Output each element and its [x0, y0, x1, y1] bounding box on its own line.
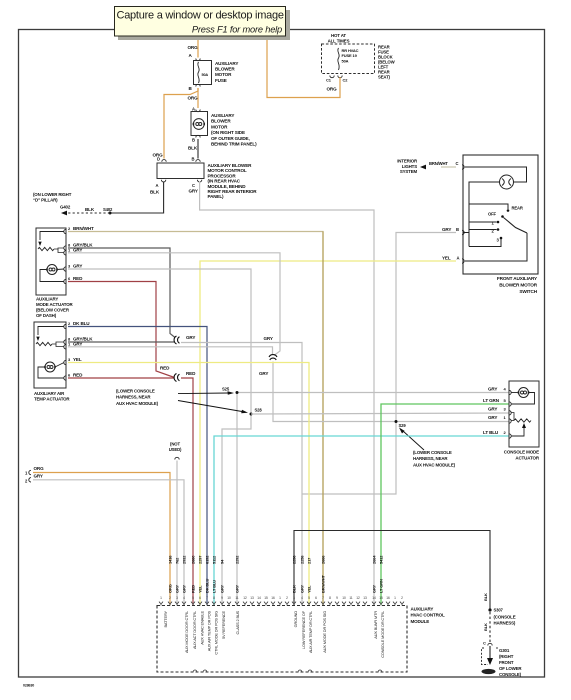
svg-text:5: 5 — [308, 596, 310, 600]
contact REAR — [507, 209, 510, 212]
actuator AUXILIARY AIR TEMP ACTUATOR box — [34, 322, 66, 388]
pin 3 terminal temp actuator — [64, 360, 66, 364]
svg-text:6192: 6192 — [205, 555, 210, 564]
svg-text:50A: 50A — [202, 73, 209, 77]
motor symbol temp actuator — [45, 362, 55, 372]
motor to pin 5 console actuator — [511, 393, 535, 405]
svg-text:2297: 2297 — [198, 555, 203, 564]
svg-text:“D” PILLAR): “D” PILLAR) — [33, 197, 58, 202]
svg-text:1: 1 — [279, 596, 281, 600]
svg-text:G301: G301 — [499, 648, 510, 653]
wire LT BLU module to console actuator pin 2 — [214, 436, 509, 605]
motor to pin 6 temp actuator — [38, 367, 64, 378]
contact 3 — [500, 237, 503, 240]
svg-text:A: A — [457, 256, 460, 261]
connector inline C200 GRY/BLK pair — [174, 336, 179, 344]
svg-text:2: 2 — [286, 596, 288, 600]
svg-text:(RIGHT: (RIGHT — [499, 654, 514, 659]
svg-text:CLASS 2 BUS: CLASS 2 BUS — [235, 610, 240, 634]
label AUXILIARY AIR TEMP ACTUATOR — [34, 391, 70, 402]
wire DK BLU temp actuator pin 2 to module — [68, 327, 207, 606]
fuse element curve — [198, 62, 199, 83]
svg-text:13: 13 — [250, 596, 254, 600]
svg-text:5V REFERENCE: 5V REFERENCE — [221, 610, 226, 639]
pin 3 terminal mode actuator — [64, 267, 66, 271]
pin 6 terminal mode actuator — [64, 279, 66, 283]
svg-text:11: 11 — [235, 596, 239, 600]
pin 3 to resistor console actuator — [511, 413, 514, 421]
wire GRY switch B to splice S29 and module low reference — [302, 233, 456, 495]
wire YEL temp actuator pin 3 to module — [68, 363, 309, 606]
svg-text:13: 13 — [363, 596, 367, 600]
motor symbol console mode actuator — [519, 388, 529, 398]
svg-text:GRY: GRY — [73, 264, 82, 269]
connector inline GRY pair vertical — [269, 355, 277, 360]
motor symbol aux blower motor — [193, 119, 204, 130]
svg-text:LT GRN: LT GRN — [379, 579, 384, 593]
svg-text:BLOWER MOTOR: BLOWER MOTOR — [499, 282, 537, 287]
wire BLK motor B to processor pin B — [197, 139, 199, 159]
svg-text:10: 10 — [342, 596, 346, 600]
wire GRY not used to module — [176, 461, 178, 606]
contact OFF — [501, 215, 504, 218]
fuse RR HVAC FUSE 19 element — [338, 48, 339, 70]
svg-text:2256: 2256 — [292, 555, 297, 564]
svg-text:Capture a window or desktop im: Capture a window or desktop image — [117, 10, 284, 22]
svg-text:OFF: OFF — [488, 212, 497, 217]
svg-text:GRY: GRY — [488, 407, 497, 412]
wiper arrow mode actuator — [38, 242, 41, 246]
wire GRY mode actuator pin 3 through splice S28 to module — [68, 269, 251, 605]
splice S402 — [109, 212, 112, 215]
svg-text:FUSE: FUSE — [215, 78, 227, 83]
resistor to pin 8 — [54, 248, 64, 249]
pin 1 to resistor console actuator — [511, 420, 514, 422]
svg-text:OF OUTER GUIDE,: OF OUTER GUIDE, — [211, 136, 250, 141]
svg-text:3: 3 — [176, 596, 178, 600]
wire RED from connector to module — [181, 378, 193, 605]
svg-text:REAR: REAR — [512, 206, 523, 211]
svg-text:BATTERY: BATTERY — [163, 610, 168, 627]
pin 1 terminal temp actuator — [64, 345, 66, 349]
svg-text:HARNESS, NEAR: HARNESS, NEAR — [116, 395, 151, 400]
svg-text:B: B — [456, 227, 459, 232]
arrow from harness label to splice S25 — [178, 392, 228, 395]
svg-text:GRY: GRY — [259, 371, 268, 376]
pin 1 terminal mode actuator — [64, 251, 66, 255]
svg-text:DK BLU: DK BLU — [73, 321, 90, 326]
svg-text:4: 4 — [183, 596, 185, 600]
svg-text:LT BLU: LT BLU — [483, 430, 499, 435]
svg-text:USED): USED) — [169, 447, 182, 452]
svg-text:LT BLU: LT BLU — [212, 580, 217, 593]
svg-text:S402: S402 — [103, 207, 113, 212]
resistor to pin 1 — [58, 249, 64, 253]
terminal C2 of rear fuse block — [338, 76, 342, 78]
svg-text:GRY: GRY — [220, 584, 225, 593]
splice S307 — [488, 608, 491, 611]
svg-text:AUXILIARY: AUXILIARY — [36, 297, 58, 302]
svg-text:CONSOLE): CONSOLE) — [499, 672, 522, 677]
wire ORG from hot feed down to fuse F1 pin A — [197, 36, 199, 58]
svg-text:SEAT): SEAT) — [378, 75, 391, 80]
wire BRN/WHT down to aux hvac module mode door pos — [322, 232, 324, 606]
svg-text:2932: 2932 — [182, 555, 187, 564]
svg-text:GROUND: GROUND — [293, 611, 298, 628]
motor to pin 3 mode actuator — [57, 268, 64, 271]
tooltip Capture a window or desktop image — [115, 7, 286, 37]
wire GRY from connector through splice S29 to console actuator pin 1 — [273, 362, 509, 422]
svg-text:FRONT AUXILIARY: FRONT AUXILIARY — [497, 276, 538, 281]
svg-text:AUX AIR TEMP DR POS: AUX AIR TEMP DR POS — [207, 610, 212, 651]
label AUXILIARY BLOWER MOTOR FUSE — [215, 61, 238, 83]
wire GRY temp actuator pin 1 to inline connector — [68, 347, 273, 354]
svg-text:AUXILIARY: AUXILIARY — [215, 61, 238, 66]
wire ORG front harness to module battery pin — [33, 473, 170, 606]
wire bulb to switch common — [469, 182, 500, 204]
resistor to pin 1 temp actuator — [56, 344, 64, 347]
pin 2 terminal front harness — [29, 478, 31, 482]
svg-text:MODULE: MODULE — [411, 619, 430, 624]
wire switch C to illumination bulb — [465, 167, 527, 182]
label G301 RIGHT FRONT OF LOWER CONSOLE — [499, 648, 522, 677]
svg-text:D: D — [157, 157, 160, 162]
pin 2 terminal temp actuator — [64, 324, 66, 328]
svg-text:MOTOR: MOTOR — [211, 124, 228, 129]
svg-text:12: 12 — [243, 596, 247, 600]
svg-text:GRY: GRY — [372, 584, 377, 593]
svg-text:DK BLU: DK BLU — [205, 579, 210, 593]
svg-text:INTERIOR: INTERIOR — [397, 159, 418, 164]
pin C terminal switch — [462, 165, 464, 169]
actuator AUXILIARY MODE ACTUATOR box — [36, 228, 66, 295]
svg-text:GRY: GRY — [189, 189, 198, 194]
pin B terminal of motor — [196, 135, 200, 137]
label LOWER CONSOLE HARNESS NEAR AUX HVAC MODULE right — [413, 450, 456, 467]
svg-text:G402: G402 — [60, 205, 71, 210]
svg-text:1: 1 — [394, 596, 396, 600]
pin D terminal processor — [162, 160, 166, 162]
fuse AUXILIARY BLOWER MOTOR FUSE 50A — [194, 61, 212, 85]
wire GRY splice S28 to console actuator pin 3 — [251, 413, 509, 414]
wire GRY front harness to module — [33, 480, 184, 605]
svg-text:14: 14 — [372, 596, 376, 600]
svg-text:762: 762 — [175, 557, 180, 564]
svg-text:1: 1 — [160, 596, 162, 600]
svg-text:SYSTEM: SYSTEM — [400, 169, 418, 174]
motor symbol mode actuator — [47, 265, 57, 275]
svg-text:12: 12 — [356, 596, 360, 600]
svg-text:(BELOW COVER: (BELOW COVER — [36, 308, 70, 313]
wire LT GRN console actuator pin 5 to module — [381, 404, 509, 605]
svg-text:ORG: ORG — [188, 45, 199, 50]
svg-text:BRN/WHT: BRN/WHT — [73, 226, 94, 231]
svg-text:14: 14 — [257, 596, 261, 600]
resistor potentiometer temp actuator — [36, 342, 52, 345]
svg-text:GRY: GRY — [186, 335, 195, 340]
pin 1 terminal front harness — [29, 470, 31, 474]
wire to contact 2 — [469, 229, 497, 231]
svg-text:ORG: ORG — [34, 466, 45, 471]
motor M1 AUXILIARY BLOWER MOTOR — [191, 112, 208, 136]
label INTERIOR LIGHTS SYSTEM — [397, 159, 418, 175]
label FRONT AUXILIARY BLOWER MOTOR SWITCH — [497, 276, 538, 294]
pin A terminal switch — [462, 259, 464, 263]
svg-text:FRONT: FRONT — [499, 660, 514, 665]
svg-text:YEL: YEL — [307, 585, 312, 593]
svg-text:(LOWER CONSOLE: (LOWER CONSOLE — [413, 450, 452, 455]
wire to contact 1 — [469, 221, 497, 223]
svg-text:MOTOR: MOTOR — [215, 72, 232, 77]
svg-text:BLK: BLK — [150, 190, 160, 195]
module AUXILIARY HVAC CONTROL MODULE dashed box — [157, 606, 407, 673]
wire RED mode actuator pin 6 to inline connector — [68, 282, 175, 378]
svg-text:028630: 028630 — [23, 684, 34, 688]
svg-text:16: 16 — [271, 596, 275, 600]
svg-text:2666: 2666 — [321, 555, 326, 564]
REAR FUSE BLOCK dashed box — [322, 44, 375, 74]
wire switch common bus — [468, 204, 470, 247]
svg-text:Press F1 for more help: Press F1 for more help — [192, 25, 282, 35]
resistor potentiometer console actuator — [514, 419, 531, 422]
contact 1 — [497, 221, 500, 224]
svg-text:BLK: BLK — [292, 585, 297, 593]
arrow from harness label to splice S29 — [403, 431, 424, 450]
switch wiper arm — [504, 218, 528, 234]
svg-text:BLK: BLK — [188, 146, 198, 151]
svg-text:C: C — [456, 161, 459, 166]
wire wiper to pin A — [465, 233, 527, 261]
svg-text:B: B — [192, 138, 195, 143]
svg-text:AUX HVAC ENABLE: AUX HVAC ENABLE — [200, 610, 205, 644]
svg-text:PANEL): PANEL) — [208, 194, 224, 199]
pin B terminal switch — [462, 230, 464, 234]
svg-text:YEL: YEL — [442, 256, 451, 261]
label ON LOWER RIGHT D PILLAR — [33, 192, 72, 202]
wire switch B pin to wiper bus — [463, 232, 469, 234]
svg-text:AUX AIR TEMP DR CTRL: AUX AIR TEMP DR CTRL — [308, 610, 313, 653]
wire BLK module ground to splice S307 — [294, 531, 490, 611]
svg-text:ACTUATOR: ACTUATOR — [515, 456, 540, 461]
pin C terminal processor — [197, 180, 201, 182]
actuator CONSOLE MODE ACTUATOR box — [509, 381, 539, 447]
wire GRY/BLK mode actuator pin 8 to inline connector — [68, 248, 175, 338]
svg-text:16: 16 — [386, 596, 390, 600]
svg-text:5112: 5112 — [212, 555, 217, 564]
arrow from harness label to splice S28 — [178, 401, 242, 412]
wiper feed temp actuator — [38, 327, 64, 336]
svg-text:2: 2 — [169, 596, 171, 600]
wire BRN/WHT switch C toward interior lights — [441, 166, 456, 168]
switch FRONT AUXILIARY BLOWER MOTOR SWITCH box — [463, 155, 538, 274]
svg-text:5412: 5412 — [379, 555, 384, 564]
ground connector dashed outline — [482, 648, 499, 665]
svg-text:2292: 2292 — [235, 555, 240, 564]
svg-text:5: 5 — [192, 596, 194, 600]
svg-text:ORG: ORG — [188, 96, 199, 101]
svg-text:BLK: BLK — [483, 593, 488, 601]
label AUXILIARY HVAC CONTROL MODULE — [411, 607, 446, 624]
svg-text:2: 2 — [401, 596, 403, 600]
splice S25 — [236, 391, 239, 394]
wiper feed mode actuator — [40, 232, 64, 241]
svg-text:RED: RED — [186, 371, 196, 376]
pin 2 terminal mode actuator — [64, 229, 66, 233]
svg-text:C: C — [483, 641, 486, 646]
terminal ground connector — [488, 643, 492, 645]
terminal not used stub — [175, 457, 179, 459]
svg-text:2660: 2660 — [191, 555, 196, 564]
svg-text:7: 7 — [322, 596, 324, 600]
svg-text:GRY: GRY — [442, 227, 451, 232]
svg-text:15: 15 — [264, 596, 268, 600]
svg-text:A: A — [156, 183, 159, 188]
svg-text:15: 15 — [379, 596, 383, 600]
module pin terminals row — [159, 602, 404, 606]
svg-text:AUXILIARY: AUXILIARY — [411, 607, 434, 612]
svg-text:ALL TIMES: ALL TIMES — [328, 38, 350, 43]
pin 3 terminal console actuator — [509, 411, 511, 415]
wire RED temp actuator pin 6 to inline connector — [68, 377, 174, 379]
ground G301 pad — [482, 669, 496, 674]
svg-text:C: C — [192, 183, 195, 188]
svg-text:217: 217 — [307, 557, 312, 564]
svg-text:AUX MODE DOOR CTRL: AUX MODE DOOR CTRL — [184, 610, 189, 653]
label NOT USED — [169, 442, 182, 453]
svg-text:AUX BLWR MTR: AUX BLWR MTR — [373, 611, 378, 639]
svg-text:50A: 50A — [342, 58, 349, 63]
label AUXILIARY MODE ACTUATOR — [36, 297, 73, 319]
svg-text:YEL: YEL — [198, 585, 203, 593]
pin B terminal processor — [196, 160, 200, 162]
pin A terminal of fuse — [196, 59, 200, 61]
svg-text:HOT AT: HOT AT — [331, 33, 346, 38]
svg-text:AUXILIARY AIR: AUXILIARY AIR — [34, 391, 65, 396]
svg-text:MODE ACTUATOR: MODE ACTUATOR — [36, 302, 73, 307]
svg-text:BLK: BLK — [483, 623, 488, 631]
svg-text:AUX MODE DR POS SIG: AUX MODE DR POS SIG — [322, 611, 327, 653]
svg-text:8: 8 — [329, 596, 331, 600]
svg-text:RED: RED — [191, 585, 196, 593]
wire GRY mode actuator pin 1 to inline connector — [68, 253, 280, 356]
pin A terminal of motor — [196, 110, 200, 112]
module bottom unused pins — [193, 670, 382, 672]
svg-text:BRN/WHT: BRN/WHT — [429, 161, 448, 166]
svg-text:(ON RIGHT SIDE: (ON RIGHT SIDE — [211, 130, 245, 135]
pin A terminal processor — [161, 180, 165, 182]
svg-text:GRY: GRY — [264, 336, 273, 341]
module pin numbers row — [160, 596, 403, 600]
svg-text:CTRL MODE DR POS SIG: CTRL MODE DR POS SIG — [214, 611, 219, 655]
svg-text:(ON LOWER RIGHT: (ON LOWER RIGHT — [33, 192, 72, 197]
svg-text:TEMP ACTUATOR: TEMP ACTUATOR — [34, 397, 70, 402]
svg-text:ORG: ORG — [327, 87, 338, 92]
label LOWER CONSOLE HARNESS NEAR AUX HVAC MODULE left — [116, 389, 159, 406]
svg-text:LT GRN: LT GRN — [483, 398, 500, 403]
resistor to pin 8 temp actuator — [52, 342, 64, 344]
ground G301 arrow symbol — [489, 646, 491, 659]
svg-text:SWITCH: SWITCH — [519, 289, 537, 294]
svg-text:GRY: GRY — [300, 584, 305, 593]
pin 2 terminal console actuator — [509, 434, 511, 438]
motor to pin 4 console actuator — [511, 392, 519, 394]
svg-text:AUX ACT DOOR CTRL: AUX ACT DOOR CTRL — [192, 610, 197, 649]
svg-text:GRY: GRY — [182, 584, 187, 593]
label AUXILIARY BLOWER MOTOR CONTROL PROCESSOR — [208, 163, 258, 199]
svg-text:8: 8 — [213, 596, 215, 600]
wire ORG fuse B to aux blower motor pin A — [197, 88, 199, 108]
svg-text:S28: S28 — [255, 408, 263, 413]
wiper feed console actuator — [511, 428, 524, 436]
svg-text:CONSOLE MODE: CONSOLE MODE — [504, 450, 539, 455]
svg-text:9: 9 — [221, 596, 223, 600]
wire YEL switch A to aux hvac module — [200, 261, 456, 605]
svg-text:CONSOLE MODE DR CTRL: CONSOLE MODE DR CTRL — [380, 610, 385, 658]
svg-text:RED: RED — [160, 366, 170, 371]
svg-text:OF DASH): OF DASH) — [36, 313, 57, 318]
pin 8 terminal temp actuator — [64, 340, 66, 344]
bulb switch illumination lamp — [500, 175, 514, 189]
wire GRY from connector to module low ref — [181, 343, 302, 606]
wire to contact 3 — [469, 239, 501, 247]
label AUXILIARY BLOWER MOTOR location — [211, 113, 257, 147]
wire to REAR contact — [469, 204, 508, 209]
splice S29 — [395, 420, 398, 423]
svg-text:GRY: GRY — [488, 415, 497, 420]
pin 6 terminal temp actuator — [64, 376, 66, 380]
svg-text:YEL: YEL — [73, 357, 82, 362]
svg-text:RED: RED — [73, 373, 83, 378]
wire ORG fuse B to processor pin D — [164, 88, 198, 159]
svg-text:BEHIND TRIM PANEL): BEHIND TRIM PANEL) — [211, 142, 257, 147]
label RR HVAC FUSE 19 50A — [342, 48, 359, 63]
wire BLK dashed S402 to G402 — [67, 212, 110, 214]
svg-text:6: 6 — [315, 596, 317, 600]
svg-text:A: A — [192, 107, 195, 112]
svg-text:9: 9 — [336, 596, 338, 600]
svg-text:BLOWER: BLOWER — [215, 67, 235, 72]
svg-text:(CONSOLE: (CONSOLE — [494, 615, 516, 620]
svg-text:HARNESS): HARNESS) — [494, 621, 516, 626]
arrow to ground G402 — [61, 211, 67, 216]
label CONSOLE HARNESS — [494, 615, 516, 626]
svg-text:GRY: GRY — [488, 387, 497, 392]
svg-text:LIGHTS: LIGHTS — [402, 164, 417, 169]
pin 8 terminal mode actuator — [64, 246, 66, 250]
svg-text:4: 4 — [301, 596, 303, 600]
svg-text:2664: 2664 — [372, 555, 377, 564]
svg-text:HARNESS, NEAR: HARNESS, NEAR — [413, 456, 448, 461]
motor to pin 3 temp actuator — [55, 363, 64, 368]
svg-text:(LOWER CONSOLE: (LOWER CONSOLE — [116, 389, 155, 394]
svg-text:ORG: ORG — [168, 584, 173, 593]
wire GRY module 5v reference through splice S25 to console actuator pin 4 — [237, 393, 509, 606]
svg-text:GRY: GRY — [235, 584, 240, 593]
module AUXILIARY BLOWER MOTOR CONTROL PROCESSOR — [157, 163, 204, 179]
terminal C1 of rear fuse block — [330, 76, 334, 78]
svg-text:AUX HVAC MODULE): AUX HVAC MODULE) — [413, 462, 456, 467]
motor to pin 6 mode actuator — [40, 270, 64, 282]
wire GRY processor C to aux hvac module blower control — [200, 182, 374, 606]
svg-text:B: B — [192, 157, 195, 162]
contact 2 — [497, 228, 500, 231]
svg-text:S25: S25 — [222, 387, 230, 392]
wire BRN/WHT mode actuator pin 2 horizontal run — [68, 231, 323, 234]
arrow to interior lights system — [420, 165, 426, 170]
pin 4 terminal console actuator — [509, 390, 511, 394]
connector inline RED pair — [174, 374, 179, 382]
svg-text:11: 11 — [349, 596, 353, 600]
